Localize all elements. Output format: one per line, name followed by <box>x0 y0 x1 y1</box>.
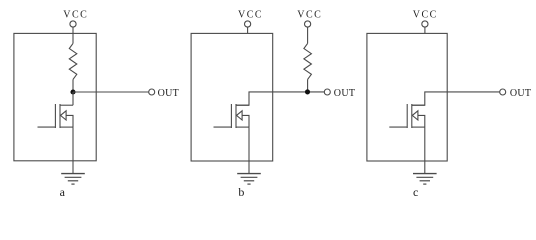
wire resistor to output node (circuit a) <box>72 79 74 92</box>
transistor M1 NMOS (circuit a) <box>38 104 74 128</box>
wire VCC terminal to box (circuit b) <box>247 27 249 33</box>
svg-text:VCC: VCC <box>63 10 88 21</box>
svg-text:a: a <box>60 185 66 199</box>
ground symbol (circuit a) <box>61 174 85 185</box>
resistor R external pull-up (circuit b) <box>304 43 312 79</box>
transistor M2 NMOS (circuit b) <box>214 104 250 128</box>
IC outline box (circuit b) <box>191 33 273 161</box>
svg-text:c: c <box>413 185 418 199</box>
svg-text:VCC: VCC <box>238 10 263 21</box>
VCC terminal circle (circuit b box) <box>245 21 251 27</box>
wire source to ground (circuit a) <box>72 127 74 174</box>
svg-text:OUT: OUT <box>334 88 355 99</box>
wire drain to node (circuit a) <box>72 92 74 105</box>
VCC terminal circle (circuit c) <box>422 21 428 27</box>
svg-text:VCC: VCC <box>297 10 322 21</box>
VCC terminal circle (circuit b pull-up) <box>305 21 311 27</box>
VCC terminal circle (circuit a) <box>70 21 76 27</box>
wire VCC terminal to resistor (circuit b) <box>307 27 309 43</box>
wire source to ground (circuit b) <box>248 127 250 174</box>
wire VCC terminal to resistor (circuit a) <box>72 27 74 43</box>
OUT terminal circle (circuit c) <box>500 89 506 95</box>
OUT terminal circle (circuit a) <box>149 89 155 95</box>
wire VCC terminal to box (circuit c) <box>424 27 426 33</box>
svg-text:OUT: OUT <box>510 88 531 99</box>
transistor M3 NMOS (circuit c) <box>389 104 425 128</box>
svg-text:OUT: OUT <box>158 88 179 99</box>
wire drain to OUT terminal (circuit c) <box>412 92 500 105</box>
wire source to ground (circuit c) <box>424 127 426 174</box>
IC outline box (circuit a) <box>14 33 96 160</box>
wire resistor to OUT node (circuit b) <box>307 79 309 91</box>
svg-text:b: b <box>238 185 244 199</box>
ground symbol (circuit b) <box>237 174 261 185</box>
IC outline box (circuit c) <box>367 33 447 161</box>
node junction dot (circuit a) <box>70 89 75 94</box>
OUT terminal circle (circuit b) <box>324 89 330 95</box>
ground symbol (circuit c) <box>413 174 437 185</box>
svg-text:VCC: VCC <box>413 10 438 21</box>
wire node to OUT terminal (circuit a) <box>73 91 149 93</box>
resistor R pull-up (circuit a) <box>69 43 77 79</box>
node junction dot (circuit b) <box>305 89 310 94</box>
wire drain to OUT node (circuit b) <box>236 92 324 105</box>
